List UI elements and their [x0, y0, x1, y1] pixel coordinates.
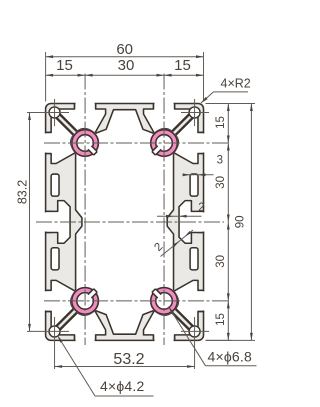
- dimension 15/30/15 top: [46, 74, 204, 76]
- vertical centerline x=15: [84, 74, 86, 346]
- left mid T-slot cavity: [46, 201, 70, 244]
- left upper side channel: [51, 174, 59, 196]
- left slot cavity at y=75: [46, 280, 76, 327]
- main cavity: [76, 110, 174, 335]
- svg-text:15: 15: [174, 57, 191, 74]
- right upper side channel: [190, 174, 198, 196]
- mouth opening left y=71: [44, 291, 47, 310]
- left slot cavity at y=15: [46, 117, 76, 164]
- mouth opening top-left: [76, 102, 95, 105]
- mouth opening bottom-right: [155, 339, 174, 342]
- horizontal centerline y=75: [44, 300, 229, 302]
- svg-text:83.2: 83.2: [15, 180, 29, 204]
- dimension 83.2 left: [29, 112, 31, 331]
- mouth opening left y=41: [44, 212, 47, 231]
- mouth opening top-right: [155, 102, 174, 105]
- text 2 diagonal: [152, 241, 165, 254]
- mouth opening right y=11: [202, 133, 205, 152]
- corner hole 4.2 bottom-left: [49, 326, 60, 337]
- horizontal centerline y=15: [44, 142, 229, 144]
- leader 4x phi4.2: [58, 336, 96, 397]
- leader 4xR2: [214, 91, 249, 93]
- svg-text:3: 3: [217, 155, 223, 167]
- dimension 2 web: [157, 215, 202, 217]
- svg-text:53.2: 53.2: [113, 351, 144, 368]
- svg-text:15: 15: [56, 57, 73, 74]
- right slot cavity at y=75: [174, 280, 204, 327]
- svg-text:15: 15: [215, 313, 227, 326]
- mouth opening right y=41: [202, 212, 205, 231]
- mouth opening right y=71: [202, 291, 205, 310]
- corner web TL: [56, 114, 78, 136]
- top slot cavity at x=15: [59, 104, 106, 134]
- mouth opening bottom-left: [76, 339, 95, 342]
- bottom slot cavity at x=45: [144, 311, 191, 341]
- svg-text:30: 30: [118, 57, 135, 74]
- svg-text:2: 2: [198, 202, 204, 214]
- dimension 15/30/30/15 right: [227, 104, 229, 341]
- dimension 3 right wall: [184, 174, 214, 176]
- corner web TR: [171, 114, 193, 136]
- bottom slot cavity at x=15: [59, 311, 106, 341]
- svg-text:4×ϕ4.2: 4×ϕ4.2: [100, 378, 144, 394]
- corner hole 4.2 top-right: [189, 107, 200, 118]
- boss hole 6.8 top-left: [72, 130, 99, 157]
- corner hole 4.2 bottom-right: [189, 326, 200, 337]
- right slot cavity at y=15: [174, 117, 204, 164]
- svg-text:15: 15: [215, 116, 227, 129]
- dimension 2 diagonal: [161, 230, 194, 257]
- dimension 53.2 bottom: [55, 366, 195, 368]
- left lower side channel: [51, 248, 59, 270]
- svg-text:30: 30: [215, 176, 227, 189]
- corner web BL: [56, 308, 78, 330]
- horizontal centerline y=45: [36, 221, 224, 223]
- boss hole 6.8 top-right: [151, 130, 178, 157]
- boss hole 6.8 bottom-right: [151, 288, 178, 315]
- profile body silhouette: [46, 104, 204, 341]
- dimension 90 right: [250, 104, 252, 341]
- svg-text:60: 60: [116, 41, 133, 58]
- svg-text:4×R2: 4×R2: [221, 77, 251, 91]
- boss hole 6.8 bottom-left: [72, 288, 99, 315]
- right mid T-slot cavity: [179, 201, 203, 244]
- right lower side channel: [190, 248, 198, 270]
- leader 4x phi6.8: [169, 307, 206, 366]
- svg-text:4×ϕ6.8: 4×ϕ6.8: [208, 349, 252, 365]
- dimension 60 top: [46, 56, 204, 58]
- vertical centerline x=45: [163, 74, 165, 346]
- mouth opening left y=11: [44, 133, 47, 152]
- top slot cavity at x=45: [144, 104, 191, 134]
- svg-text:30: 30: [215, 255, 227, 268]
- svg-text:90: 90: [235, 216, 247, 229]
- corner web BR: [171, 308, 193, 330]
- corner hole 4.2 top-left: [49, 107, 60, 118]
